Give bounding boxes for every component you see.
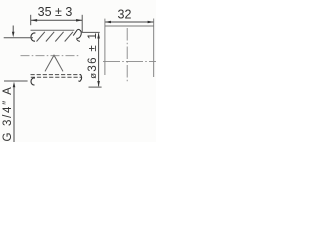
svg-text:32: 32 <box>118 8 132 22</box>
svg-text:G 3/4″ A: G 3/4″ A <box>2 85 14 141</box>
svg-text:ø36 ± 1: ø36 ± 1 <box>87 32 99 79</box>
svg-text:35 ± 3: 35 ± 3 <box>38 5 73 19</box>
